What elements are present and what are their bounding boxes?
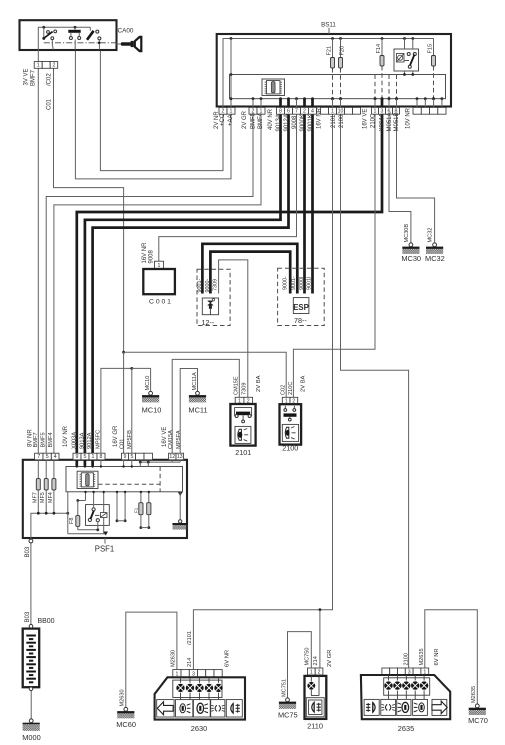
switch contact S3 in CA00 <box>87 27 101 50</box>
svg-text:2: 2 <box>318 669 321 675</box>
svg-text:C01: C01 <box>47 98 53 110</box>
svg-text:9000-: 9000- <box>283 276 289 290</box>
label CM15E <box>233 376 239 395</box>
label BB00 <box>37 618 54 625</box>
label 10V NR group <box>406 107 412 129</box>
svg-text:4: 4 <box>311 109 314 115</box>
svg-text:B03: B03 <box>25 546 31 557</box>
label 2635 <box>398 724 414 733</box>
wire BS11 pin stub 9000K <box>303 97 306 107</box>
turn indicator icon in 2630 <box>157 700 174 717</box>
wire PSF1 pin stubs into module <box>76 460 133 468</box>
label 7309 in unit 12 <box>213 279 219 291</box>
wire 9008 from BS11 pin 7 to connector C001 <box>159 114 297 261</box>
fuse F8 <box>69 501 99 532</box>
svg-text:9: 9 <box>76 454 79 460</box>
label BMF7 at CA00 <box>30 69 36 86</box>
svg-text:6V NR: 6V NR <box>434 648 440 665</box>
svg-text:1: 1 <box>310 669 313 675</box>
ground MC70 <box>468 686 488 725</box>
svg-text:9001K: 9001K <box>308 114 314 131</box>
svg-text:16V NR: 16V NR <box>142 242 148 264</box>
svg-text:M2630: M2630 <box>171 650 177 667</box>
wire CA00 internal bus <box>38 27 90 61</box>
label 9001I in unit 78 <box>307 277 313 291</box>
label MC750 at 2110 <box>305 647 311 665</box>
svg-text:7309: 7309 <box>241 383 247 395</box>
svg-text:2V BA: 2V BA <box>256 375 262 392</box>
svg-text:MC11A: MC11A <box>192 372 198 391</box>
svg-text:2: 2 <box>222 109 225 115</box>
turn indicator icon in 2635 <box>432 699 447 715</box>
svg-text:BS11: BS11 <box>321 21 336 28</box>
label C001 <box>149 299 171 306</box>
svg-text:F20: F20 <box>339 46 345 56</box>
svg-text:C02: C02 <box>280 385 286 395</box>
svg-text:1: 1 <box>230 109 233 115</box>
svg-text:MP5FA: MP5FA <box>176 430 182 449</box>
svg-text:F8: F8 <box>69 517 75 524</box>
relay in BS11 <box>394 49 419 71</box>
ground MC75 <box>278 679 298 720</box>
inner terminal box of BS11 <box>230 75 446 99</box>
svg-text:BMF5: BMF5 <box>250 112 256 129</box>
svg-text:10V NR: 10V NR <box>406 107 412 129</box>
svg-text:MF7: MF7 <box>32 492 38 503</box>
svg-text:2100: 2100 <box>403 653 409 665</box>
svg-text:12: 12 <box>169 454 175 460</box>
svg-text:MC750: MC750 <box>305 647 311 665</box>
battery BB00 <box>23 624 40 690</box>
wire 9000- thick from pump unit 12 to ESP unit 78 <box>210 252 290 294</box>
wire BMF5 from BS11 2V GR pin 2 to PSF1 pin 5 <box>46 114 253 453</box>
fuse F15 <box>428 39 436 67</box>
wire MC10 to ground MC10 <box>132 368 151 391</box>
ESP unit 78 dashed box <box>278 268 325 325</box>
wire MP5FB branch to PSF1 pin 5 16V GR <box>131 368 133 453</box>
svg-text:F21: F21 <box>327 46 333 56</box>
label 10V NR group at PSF1 <box>63 425 101 449</box>
wire BS11 pin stub 2VGR p1 <box>260 97 263 107</box>
module box in PSF1 <box>66 467 183 492</box>
svg-text:1: 1 <box>92 454 95 460</box>
label M2630 at 2630 <box>171 650 177 667</box>
label B03 lower <box>25 611 31 622</box>
svg-text:3V VE: 3V VE <box>24 68 30 85</box>
svg-text:M051A: M051A <box>387 112 393 131</box>
svg-text:5: 5 <box>46 454 49 460</box>
wire BS11 pin stub M051B <box>395 97 398 107</box>
wire M2635 from lamp cluster 2635 pin 1 to ground MC70 <box>425 610 478 704</box>
wire C01 branch to PSF1 pin 9 16V GR <box>123 352 125 453</box>
svg-text:CM15E: CM15E <box>233 376 239 395</box>
connector 40V NR of BS11 <box>277 107 317 114</box>
svg-text:2V GR: 2V GR <box>327 650 333 667</box>
lamp cluster 2635 connector <box>382 668 429 675</box>
label 2100 <box>282 444 298 453</box>
svg-text:/C02: /C02 <box>47 73 53 86</box>
wire X004A thick from BS11 16V VE pin 3 to PSF1 pin 9 <box>77 114 382 453</box>
fuse F1 in PSF1 <box>139 491 143 529</box>
wire BS11 pin stub 2100 <box>339 97 342 107</box>
label 12 <box>202 318 215 327</box>
connector 16V NR of BS11 <box>321 107 361 114</box>
label 16V VE group <box>363 109 401 132</box>
svg-text:MC10: MC10 <box>145 376 151 391</box>
svg-text:6: 6 <box>287 109 290 115</box>
svg-text:10: 10 <box>338 109 344 115</box>
wire MC750 from foglamp 2110 pin 1 to ground MC75 <box>288 632 312 698</box>
svg-text:9000I: 9000I <box>299 277 305 291</box>
svg-text:210C: 210C <box>370 113 376 128</box>
label 210C at 2100 <box>288 382 294 395</box>
fuse F20 <box>339 37 346 68</box>
ESP box <box>293 298 309 314</box>
svg-text:9: 9 <box>124 454 127 460</box>
connector block symbol in PSF1 <box>77 471 98 488</box>
switch 2101 body <box>230 404 255 446</box>
svg-text:9012A: 9012A <box>87 432 93 449</box>
connector C001 <box>143 261 175 294</box>
position lamp icon in 2630 <box>211 700 225 717</box>
wire dashed M051B tap <box>395 75 398 101</box>
node C01 junction <box>122 351 125 354</box>
svg-text:1: 1 <box>37 63 40 69</box>
label 9001- in unit 78 <box>291 276 297 290</box>
svg-text:7: 7 <box>37 454 40 460</box>
svg-text:CM15A: CM15A <box>168 430 174 449</box>
svg-text:1: 1 <box>331 109 334 115</box>
svg-text:M000: M000 <box>22 733 41 742</box>
connector 16V GR of PSF1 <box>122 453 153 460</box>
svg-text:16V NR: 16V NR <box>317 107 323 129</box>
foglamp unit 2110 connector <box>308 668 323 675</box>
wire B03 from PSF1 to battery BB00 <box>30 543 32 624</box>
wire MP5FC from PSF1 pin 8 up to MC10 line <box>101 368 132 453</box>
wire BS11 pin stub M051A <box>388 97 391 107</box>
label CA00 <box>118 27 134 34</box>
wire dashed below F21 <box>331 68 334 100</box>
svg-text:MC30: MC30 <box>401 254 421 263</box>
svg-text:MC11: MC11 <box>188 406 207 415</box>
wire dashed below F15 <box>432 66 435 100</box>
label 2V GR group <box>242 110 264 129</box>
label 214 /2101 at 2630 <box>187 631 193 667</box>
fog lamp icon in 2630 <box>226 700 242 717</box>
svg-text:M2635: M2635 <box>471 686 477 703</box>
svg-text:2635: 2635 <box>398 724 414 733</box>
wire BS11 10V NR stub 1 <box>416 97 419 107</box>
wire BMF7 from CA00 pin 1 to PSF1 pin 7 <box>37 68 39 453</box>
wire 9001K thick from BS11 pin 4 to ESP unit <box>311 114 314 293</box>
label BS11 <box>321 21 336 34</box>
wire BS11 pin stub X004A <box>381 97 384 107</box>
wire BS11 pin stub 2VGR p2 <box>252 97 255 107</box>
label 40V NR group <box>268 108 314 131</box>
wire M2630 from lamp cluster 2630 pin 1 to ground MC60 <box>126 612 177 708</box>
lamp cluster 2630 connector <box>173 670 222 678</box>
svg-text:16V GR: 16V GR <box>113 425 119 447</box>
svg-text:2110: 2110 <box>307 722 323 731</box>
low beam icon in 2635 <box>413 699 428 715</box>
svg-text:9012A: 9012A <box>284 114 290 131</box>
label 8V NR group <box>28 429 55 448</box>
connector 2V GR of BS11 <box>249 107 265 114</box>
terminal B03 circle <box>29 539 33 543</box>
internal ground in PSF1 <box>172 492 187 530</box>
svg-text:9001-: 9001- <box>291 276 297 290</box>
wire 2101 from BS11 16V NR pin 1 down to lamp cluster 2630 <box>193 114 332 669</box>
svg-text:F14: F14 <box>376 44 382 54</box>
wire BS11 pin stub 9001K <box>311 97 314 107</box>
connector 2V NR of BS11 <box>219 107 235 114</box>
svg-text:78--: 78-- <box>294 316 307 325</box>
high beam icon in 2630 <box>193 700 210 717</box>
fog icon in 2110 <box>306 698 324 717</box>
svg-text:MP5FC: MP5FC <box>95 430 101 449</box>
svg-text:13: 13 <box>177 454 183 460</box>
node 214 junction <box>319 608 322 611</box>
headlamp symbol in 2101 <box>235 426 251 443</box>
svg-text:BMF7: BMF7 <box>30 69 36 86</box>
ground MC60 <box>116 689 136 729</box>
ground MC32 <box>425 228 445 263</box>
connector 16V VE of PSF1 <box>169 453 184 460</box>
svg-text:6V NR: 6V NR <box>224 650 230 667</box>
wire 9012A thick from BS11 pin 6 to PSF1 pin 1 <box>93 114 289 453</box>
wire dashed 210C tap <box>374 75 377 101</box>
fuse MF7 <box>32 460 40 515</box>
wire BS11 pin stub 9008 <box>295 97 298 107</box>
node CA00 bus dot 2 <box>74 26 77 29</box>
svg-text:2V GR: 2V GR <box>242 110 248 129</box>
label 2110 <box>307 722 323 731</box>
foglamp unit 2110 body <box>305 676 327 719</box>
wire BS11 pin stub 2101 <box>331 97 334 107</box>
wire 7309 from pump unit 12 to switch 2101 pin 2 <box>219 260 248 397</box>
label 214 at 2110 <box>313 656 319 665</box>
wire BS11 +AA internal drop <box>230 37 233 107</box>
svg-text:9013A: 9013A <box>276 114 282 131</box>
svg-text:2101: 2101 <box>235 448 251 457</box>
svg-text:M2630: M2630 <box>120 689 126 706</box>
svg-text:4: 4 <box>54 454 57 460</box>
svg-text:2: 2 <box>303 109 306 115</box>
svg-text:C01: C01 <box>120 439 126 449</box>
svg-text:PSF1: PSF1 <box>95 545 115 554</box>
fuse F14 <box>376 37 384 66</box>
label 2V BA at 2100 <box>300 375 306 392</box>
connector 10V NR of BS11 <box>413 107 446 114</box>
svg-text:8: 8 <box>279 109 282 115</box>
svg-text:+CC: +CC <box>220 113 226 126</box>
svg-text:CA00: CA00 <box>118 27 134 34</box>
wire 9001- thick from pump unit 12 to ESP unit 78 <box>202 244 297 294</box>
connector of CA00 pins 1 2 <box>34 62 58 69</box>
wire PSF1 16V link line <box>139 460 180 467</box>
svg-text:MC32: MC32 <box>428 228 434 243</box>
svg-text:MC75: MC75 <box>278 711 298 720</box>
wire C01 from CA00 pin 2 down and right <box>54 68 124 352</box>
lamp cluster 2635 body <box>361 675 450 719</box>
svg-text:M2635: M2635 <box>419 648 425 665</box>
wire BMF4 from BS11 2V GR pin 1 to PSF1 pin 4 <box>54 114 261 453</box>
label C01 <box>47 98 53 110</box>
connector block symbol in BS11 <box>262 79 285 96</box>
ground M000 <box>22 719 41 742</box>
wire PSF1 internal bus to fuses <box>31 512 69 541</box>
svg-text:5: 5 <box>84 454 87 460</box>
svg-text:2101: 2101 <box>331 114 337 128</box>
label 16V NR 9008 <box>142 242 155 264</box>
svg-text:10V NR: 10V NR <box>63 425 69 447</box>
label 7309 at 2101 <box>241 383 247 395</box>
wire BS11 10V NR stub 2 <box>424 97 427 107</box>
svg-text:2V NR: 2V NR <box>214 111 220 129</box>
svg-text:40V NR: 40V NR <box>268 108 274 130</box>
wire MP5FA from PSF1 pin 13 to ground MC11 <box>180 369 197 454</box>
svg-text:M051B: M051B <box>394 112 400 131</box>
svg-text:9013A: 9013A <box>79 432 85 449</box>
label 9000- in unit 12 <box>205 279 211 293</box>
ignition switch CA00 box <box>20 20 117 50</box>
position lamp icon in 2635 <box>381 699 396 715</box>
switch 2100 body <box>280 404 302 444</box>
hydraulic unit 12 dashed box <box>197 269 230 325</box>
wire mid feeds in PSF1 <box>116 491 127 522</box>
wire 214 branch to foglamp 2110 pin 2 <box>319 610 321 668</box>
svg-text:MC60: MC60 <box>116 720 136 729</box>
svg-text:MC70: MC70 <box>468 716 488 725</box>
label 6V NR at 2635 <box>434 648 440 665</box>
dashed links in PSF1 module <box>98 467 160 492</box>
wire C02 to switch 2100 pin 1 <box>124 352 287 397</box>
node MP5FB junction <box>130 367 133 370</box>
switch contact S1 in CA00 <box>42 27 56 50</box>
label 2V GR at 2110 <box>327 650 333 667</box>
wire +CC from CA00 to BS11 2V NR pin 2 <box>100 50 223 171</box>
wire dashed below F14 <box>381 66 384 100</box>
lamp row in 2630 <box>173 677 223 699</box>
label 3V VE <box>24 68 30 85</box>
wire relay feeds in PSF1 <box>68 491 108 536</box>
svg-text:7309: 7309 <box>213 279 219 291</box>
label 16V VE group at PSF1 <box>162 427 182 449</box>
label 78 <box>294 316 307 325</box>
key symbol <box>116 36 142 53</box>
wire M051A from BS11 16V VE pin 6 to ground MC30 <box>389 114 411 243</box>
fuse box PSF1 <box>23 460 187 538</box>
ground MC10 <box>142 376 162 415</box>
wire BS11 pin stub 210C <box>374 97 377 107</box>
label 9001- in unit 12 <box>197 279 203 293</box>
svg-text:MP5FB: MP5FB <box>127 430 133 449</box>
wire BS11 10V NR stub 3 <box>432 97 435 107</box>
headlamp symbol in 2100 <box>282 424 298 441</box>
wire M000 from battery BB00 to ground M000 <box>30 690 32 719</box>
svg-text:9008: 9008 <box>292 115 298 129</box>
ground MC11 <box>188 372 207 415</box>
pump symbol in unit 12 <box>202 298 218 315</box>
svg-text:ESP: ESP <box>293 303 309 312</box>
switch 2101 connector pins <box>235 397 252 404</box>
svg-text:2630: 2630 <box>191 724 207 733</box>
svg-text:B03: B03 <box>25 611 31 622</box>
label 6V NR at 2630 <box>224 650 230 667</box>
svg-text:16V VE: 16V VE <box>363 109 369 129</box>
label B03 upper <box>25 546 31 557</box>
label /C02 <box>47 73 53 86</box>
svg-text:9000K: 9000K <box>300 114 306 131</box>
svg-text:9001I: 9001I <box>307 277 313 291</box>
switch 2100 connector pins <box>282 397 297 404</box>
wire +AA from CA00 to BS11 2V NR pin 1 <box>75 50 231 179</box>
svg-text:MF4: MF4 <box>48 492 54 503</box>
svg-text:2: 2 <box>53 63 56 69</box>
wire 9013A thick from BS11 pin 8 to PSF1 pin 5 <box>85 114 281 453</box>
fuse MF5 <box>40 460 48 515</box>
label PSF1 <box>95 538 115 554</box>
svg-text:5: 5 <box>131 454 134 460</box>
svg-text:/2101: /2101 <box>187 631 193 645</box>
fuse MF4 <box>48 460 56 515</box>
lamp cluster 2630 body <box>155 677 245 719</box>
wire dashed M051A tap <box>388 75 391 101</box>
label 9000I in unit 78 <box>299 277 305 291</box>
label 2V NR group <box>214 111 234 129</box>
wire BS11 10V NR stub 4 <box>441 97 444 107</box>
wire relay pin up 2 <box>411 37 414 49</box>
svg-text:MC32: MC32 <box>425 254 445 263</box>
fuse F4 in PSF1 <box>133 491 151 529</box>
wire CM15A from PSF1 pin 12 to switch 2101 pin 1 <box>172 359 239 453</box>
label 2V BA at 2101 <box>256 375 262 392</box>
relay in PSF1 <box>86 505 110 526</box>
wire relay pin up 1 <box>403 37 406 49</box>
connector 8V NR of PSF1 <box>35 453 59 460</box>
label 9000- in unit 78 <box>283 276 289 290</box>
wire 9000K thick from BS11 pin 2 to ESP unit <box>303 114 306 293</box>
svg-text:MC30B: MC30B <box>404 224 410 243</box>
svg-text:BMF7: BMF7 <box>33 432 39 447</box>
lamp row in 2635 <box>384 675 430 699</box>
svg-text:BMF5: BMF5 <box>41 432 47 447</box>
wire relay pin down 1 <box>403 71 406 76</box>
high beam icon in 2635 <box>397 699 411 715</box>
mechanical link dash-dot line <box>44 42 117 45</box>
label M2635 at 2635 <box>419 648 425 665</box>
connector 16V VE of BS11 <box>372 107 400 114</box>
svg-text:F15: F15 <box>428 44 434 54</box>
svg-text:+AA: +AA <box>228 114 234 126</box>
wire BS11 internal top bus <box>223 39 434 108</box>
controller BS11 box <box>217 34 451 107</box>
svg-text:2100: 2100 <box>339 114 345 128</box>
connector 10V NR of PSF1 <box>73 453 105 460</box>
svg-text:MF5: MF5 <box>40 492 46 503</box>
svg-text:9008: 9008 <box>149 249 155 263</box>
svg-text:9000-: 9000- <box>205 279 211 293</box>
svg-text:8: 8 <box>100 454 103 460</box>
svg-text:C 0 0 1: C 0 0 1 <box>149 299 171 306</box>
svg-text:MC10: MC10 <box>142 406 162 415</box>
ground MC30 <box>401 224 421 263</box>
fog lamp icon in 2635 <box>364 699 379 715</box>
wire feeds below module <box>68 491 87 534</box>
svg-text:BMF4: BMF4 <box>258 112 264 129</box>
svg-text:9001-: 9001- <box>197 279 203 293</box>
label C02 at 2100 <box>280 385 286 395</box>
